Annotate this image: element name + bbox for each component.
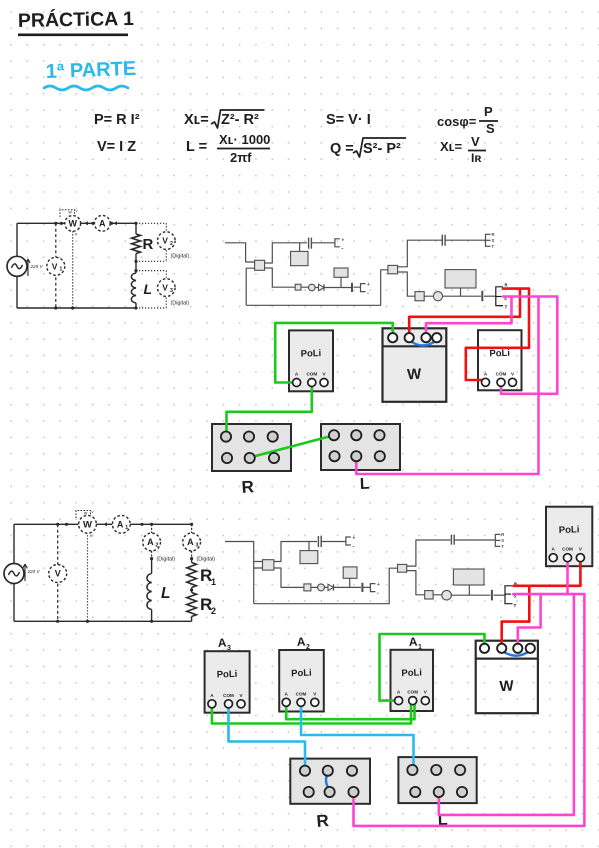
panel 2: capacitor C4 — [491, 590, 493, 601]
svg-text:+: + — [377, 582, 380, 588]
svg-text:T: T — [514, 603, 517, 608]
svg-text:COM: COM — [407, 690, 418, 695]
svg-text:S: S — [492, 238, 495, 243]
svg-text:L: L — [144, 281, 153, 297]
svg-text:W: W — [83, 520, 92, 531]
svg-text:V= I Z: V= I Z — [97, 139, 136, 155]
svg-text:COM: COM — [562, 547, 573, 552]
panel 1: feed wire — [225, 243, 255, 262]
circuit 2: voltmeter V — [49, 565, 67, 583]
svg-text:Iʀ: Iʀ — [471, 151, 481, 165]
svg-text:1ª PARTE: 1ª PARTE — [45, 58, 136, 83]
circuit 1: voltmeter V1 — [47, 257, 65, 275]
svg-text:2πf: 2πf — [230, 150, 252, 165]
svg-text:COM: COM — [223, 693, 234, 698]
svg-text:A: A — [147, 537, 154, 547]
circuit 2: wattmeter dashed box — [76, 511, 91, 519]
panel 2: motor circle — [442, 590, 452, 600]
circuit 1: wattmeter dashed box — [60, 210, 75, 217]
circuit 1: voltmeter V2 digital — [158, 232, 176, 250]
circuit 2: branch L wire — [151, 559, 153, 622]
instrument Poli 1 — [289, 330, 333, 391]
instrument Poli 2 — [478, 330, 522, 390]
resistor load box R2 — [290, 759, 370, 804]
svg-text:R: R — [241, 477, 255, 497]
panel 2: wire to top rail — [274, 542, 317, 562]
svg-text:220 V: 220 V — [30, 264, 44, 269]
wire pink RST2-S rail — [513, 593, 584, 596]
circuit 1: node dots bottom — [54, 306, 57, 309]
circuit 2: resistor R1 — [187, 563, 197, 588]
circuit 2: AC source 220V — [4, 564, 24, 584]
panel 1: capacitor C4 — [481, 291, 483, 301]
wire cyan PoliA2-COM to Lbox2 — [301, 702, 414, 770]
panel 1: capacitor C3 — [441, 235, 443, 246]
panel 2: contactor block — [398, 564, 407, 572]
circuit 1: V1 dashed lead — [55, 223, 57, 308]
panel 2: 3-phase connector RST — [494, 534, 496, 547]
circuit 2: node dots top — [56, 523, 59, 526]
svg-text:w: w — [84, 511, 88, 516]
wire green Poli1-COM to Rbox1 — [227, 383, 312, 437]
panel 1: motor path — [398, 272, 481, 296]
svg-text:R: R — [143, 236, 154, 253]
panel 1: wire to bottom rail — [246, 268, 255, 305]
svg-text:A: A — [99, 219, 106, 229]
instrument Poli top (circuit 2) — [546, 507, 592, 567]
wattmeter box W2 — [476, 641, 538, 714]
svg-text:T: T — [505, 305, 508, 310]
svg-text:A: A — [408, 635, 418, 649]
svg-text:3: 3 — [195, 543, 198, 549]
wire green W1-t1 to Poli1-A — [275, 323, 393, 383]
circuit 1: right branch wire — [135, 223, 137, 308]
panel 2: bottom rail — [254, 568, 398, 604]
panel 1: DC connector 2 — [361, 284, 366, 292]
circuit 2: wire bottom — [14, 620, 192, 622]
svg-text:R: R — [505, 283, 508, 288]
svg-text:+: + — [352, 536, 355, 542]
panel 2: breaker stubs — [254, 562, 263, 569]
svg-text:-: - — [341, 246, 343, 252]
svg-text:1: 1 — [125, 525, 128, 531]
panel 1: contactor block — [388, 265, 398, 273]
svg-text:L: L — [161, 585, 170, 602]
svg-text:W: W — [407, 366, 423, 384]
resistor load box R1 — [212, 424, 291, 471]
svg-text:(Digital): (Digital) — [171, 254, 190, 260]
svg-text:COM: COM — [496, 371, 507, 376]
circuit 2: wattmeter W — [79, 515, 97, 533]
panel 2: relay block — [453, 569, 484, 585]
svg-text:Z²- R²: Z²- R² — [221, 112, 259, 128]
circuit 2: current arrows — [104, 522, 107, 526]
wire pink S to W1-t3 — [426, 297, 512, 338]
panel 2: lamp — [318, 584, 325, 591]
circuit 1: wire left — [16, 223, 18, 308]
circuit 2: inductor L — [147, 574, 152, 610]
inductor load box L1 — [321, 424, 400, 470]
svg-text:+: + — [367, 282, 370, 288]
svg-text:v: v — [92, 509, 94, 514]
circuit 1: inductor L — [131, 273, 136, 303]
svg-text:R: R — [501, 532, 504, 537]
svg-text:S= V· I: S= V· I — [326, 112, 371, 128]
panel 1: transformer block 2 — [340, 277, 342, 287]
wire red RST-R to Poli2-A — [466, 289, 529, 383]
svg-text:PoLi: PoLi — [489, 348, 510, 360]
panel 1: relay block — [445, 270, 476, 288]
panel 2: DC connector 2 — [370, 584, 375, 592]
svg-text:v: v — [75, 232, 78, 237]
svg-text:PRÁCTiCA 1: PRÁCTiCA 1 — [18, 7, 134, 32]
panel 1: rail to DC connector — [312, 242, 335, 244]
wire pink S to W2-t3 — [518, 594, 541, 648]
svg-text:S: S — [501, 538, 504, 543]
svg-text:A: A — [296, 635, 306, 649]
svg-text:L =: L = — [186, 139, 207, 155]
panel 2: output bracket RST — [505, 586, 513, 604]
panel 1: transformer block 1 — [299, 243, 301, 252]
panel 1: DC connector 1 — [335, 239, 340, 247]
wire pink S to Lbox1 — [356, 297, 538, 475]
svg-text:PoLi: PoLi — [401, 667, 422, 679]
svg-text:T: T — [492, 244, 495, 249]
svg-text:1: 1 — [211, 577, 216, 587]
svg-text:-: - — [377, 591, 379, 597]
circuit 2: ammeter A2 digital — [143, 533, 161, 551]
svg-text:2: 2 — [155, 543, 158, 549]
svg-text:Xʟ=: Xʟ= — [440, 139, 463, 154]
inductor load box L2 — [398, 757, 476, 803]
svg-text:P= R I²: P= R I² — [94, 112, 140, 128]
svg-text:cosφ=: cosφ= — [437, 114, 477, 129]
svg-text:(Digital): (Digital) — [157, 557, 176, 563]
svg-text:2: 2 — [211, 606, 216, 616]
panel 2: breaker block — [263, 560, 274, 570]
svg-text:PoLi: PoLi — [291, 668, 312, 680]
wire blue Rbox2 jumper — [326, 773, 330, 790]
svg-text:Xʟ=: Xʟ= — [184, 112, 209, 128]
panel 2: wire to top rail right — [407, 540, 451, 566]
circuit 1: dotted links to V2 V3 — [136, 222, 166, 224]
wire red RST2-R to W2-t2 — [502, 586, 530, 649]
svg-text:V: V — [162, 236, 168, 246]
panel 1: 3-phase connector RST — [485, 234, 487, 247]
panel 1: wire to top rail right — [398, 240, 442, 267]
svg-text:T: T — [501, 544, 504, 549]
panel 1: motor circle — [433, 292, 442, 301]
circuit 2: wire top — [14, 523, 192, 525]
panel 1: output bracket RST — [496, 287, 503, 306]
circuit 1: wattmeter W — [65, 216, 81, 232]
svg-text:R: R — [316, 811, 330, 831]
instrument Poli A3 — [205, 651, 250, 713]
wire pink RST-S rail — [503, 295, 557, 298]
wire red RST-R to W1-t2 — [409, 289, 520, 338]
svg-text:A: A — [187, 537, 194, 547]
svg-text:COM: COM — [306, 372, 317, 377]
wire red RST2-R to Poli V — [514, 558, 581, 586]
wattmeter box W1 — [383, 328, 447, 402]
svg-text:V: V — [162, 283, 168, 293]
svg-text:i: i — [79, 226, 80, 231]
panel 2: fuse block — [304, 584, 311, 591]
instrument Poli A1 — [391, 650, 434, 711]
panel 2: transformer block 2 — [349, 578, 351, 587]
svg-text:220 V: 220 V — [27, 569, 41, 574]
circuit 1: resistor R — [132, 234, 141, 254]
panel 2: motor path — [407, 571, 491, 596]
svg-text:(Digital): (Digital) — [197, 557, 216, 563]
circuit 2: ammeter A1 — [112, 515, 130, 533]
svg-text:+: + — [341, 237, 344, 243]
instrument Poli A2 — [279, 650, 324, 712]
svg-text:v: v — [76, 208, 78, 213]
svg-text:-: - — [352, 545, 354, 551]
panel 1: rail to 3-phase connector — [445, 239, 485, 241]
wire pink S to Poli2-COM — [501, 297, 557, 394]
wire cyan PoliA3-COM to Rbox2 — [229, 704, 306, 771]
circuit 1: wire bottom — [17, 307, 136, 309]
panel 1: bottom rail — [246, 270, 388, 306]
circuit 2: branch R wire — [191, 559, 193, 622]
circuit 2: wire left — [13, 524, 15, 621]
circuit 1: AC source 220V — [7, 256, 27, 276]
panel 2: capacitor C2 — [361, 583, 363, 592]
panel 1: lower path — [265, 268, 360, 288]
wire pink S to Rbox2 — [354, 594, 585, 826]
circuit 2: resistor R2 — [187, 593, 197, 617]
svg-text:W: W — [68, 219, 77, 229]
circuit 1: voltmeter V3 digital — [158, 279, 176, 297]
svg-text:S²- P²: S²- P² — [363, 141, 401, 157]
wavy underline — [44, 86, 128, 90]
svg-text:L: L — [360, 476, 371, 493]
circuit 1: node dots branch — [134, 222, 137, 225]
wire blue W2 t2-t4 jumper — [502, 651, 531, 656]
svg-text:COM: COM — [296, 691, 307, 696]
panel 1: wire to top rail — [265, 243, 307, 263]
panel 2: lower path — [274, 568, 370, 587]
title underline — [18, 33, 128, 36]
svg-text:V: V — [55, 569, 61, 579]
circuit 1: node dots top — [54, 222, 57, 225]
svg-text:3: 3 — [170, 288, 173, 294]
wire pink S to Poli COM — [566, 558, 569, 594]
circuit 1: ammeter A — [94, 215, 110, 231]
panel 1: breaker block — [255, 260, 265, 270]
svg-text:Q =: Q = — [330, 141, 354, 157]
svg-text:P: P — [484, 104, 493, 119]
svg-text:(Digital): (Digital) — [171, 301, 190, 307]
wire green W2-t1 to PoliA1-A — [380, 634, 485, 701]
circuit 1: current arrows — [85, 221, 88, 225]
svg-text:V: V — [471, 134, 480, 149]
panel 2: diode — [328, 584, 334, 590]
svg-text:W: W — [499, 678, 515, 696]
circuit 1: source arrow + 220V label — [26, 259, 30, 276]
svg-text:PoLi: PoLi — [559, 524, 580, 536]
svg-text:A: A — [117, 520, 124, 530]
svg-text:PoLi: PoLi — [217, 669, 238, 681]
circuit 2: W dotted leads — [87, 532, 89, 621]
svg-text:v: v — [90, 533, 93, 538]
panel 1: lamp — [309, 284, 316, 291]
svg-text:-: - — [367, 291, 369, 297]
panel 2: capacitor C3 — [450, 535, 452, 545]
svg-text:PoLi: PoLi — [300, 348, 321, 360]
svg-text:2: 2 — [170, 241, 173, 247]
circuit 2: node dots bottom — [56, 620, 59, 623]
panel 1: fuse block 2 — [415, 292, 424, 301]
wire pink S to Lbox2 — [439, 594, 574, 815]
circuit 1: W dotted leads — [72, 231, 74, 308]
circuit 2: V dashed lead — [57, 524, 59, 621]
panel 1: diode — [319, 284, 325, 290]
circuit 2: A2 dashed stub — [151, 524, 153, 533]
wire green Rbox1 to Lbox1 diagonal — [250, 435, 334, 457]
panel 1: fuse block — [295, 284, 301, 290]
panel 2: feed wire — [225, 542, 254, 604]
svg-text:Xʟ· 1000: Xʟ· 1000 — [219, 132, 270, 147]
panel 2: capacitor C1 — [317, 536, 319, 547]
wire green PoliA2-A to PoliA1-COM — [286, 701, 414, 720]
svg-text:1: 1 — [59, 267, 62, 273]
panel 2: DC connector 1 — [346, 537, 351, 545]
svg-text:A: A — [217, 636, 227, 650]
svg-text:V: V — [52, 261, 58, 271]
circuit 2: ammeter A3 digital — [183, 533, 201, 551]
circuit 2: A3 dashed stub — [191, 524, 193, 533]
wire green PoliA3-A to PoliA1-COM — [212, 701, 411, 724]
svg-text:S: S — [486, 121, 495, 136]
svg-text:V: V — [511, 371, 515, 376]
svg-text:R: R — [492, 232, 495, 237]
panel 2: fuse block 2 — [425, 591, 433, 599]
circuit 2: source arrow + 220V label — [23, 564, 27, 581]
circuit 1: wire top — [17, 222, 136, 224]
panel 1: capacitor C2 — [351, 283, 353, 292]
panel 1: capacitor C1 — [308, 238, 310, 249]
terminal rings overlay — [208, 333, 585, 797]
svg-text:A: A — [484, 371, 488, 376]
panel 2: transformer block 1 — [308, 542, 310, 551]
wire blue W1 t2-t4 jumper — [409, 340, 437, 346]
